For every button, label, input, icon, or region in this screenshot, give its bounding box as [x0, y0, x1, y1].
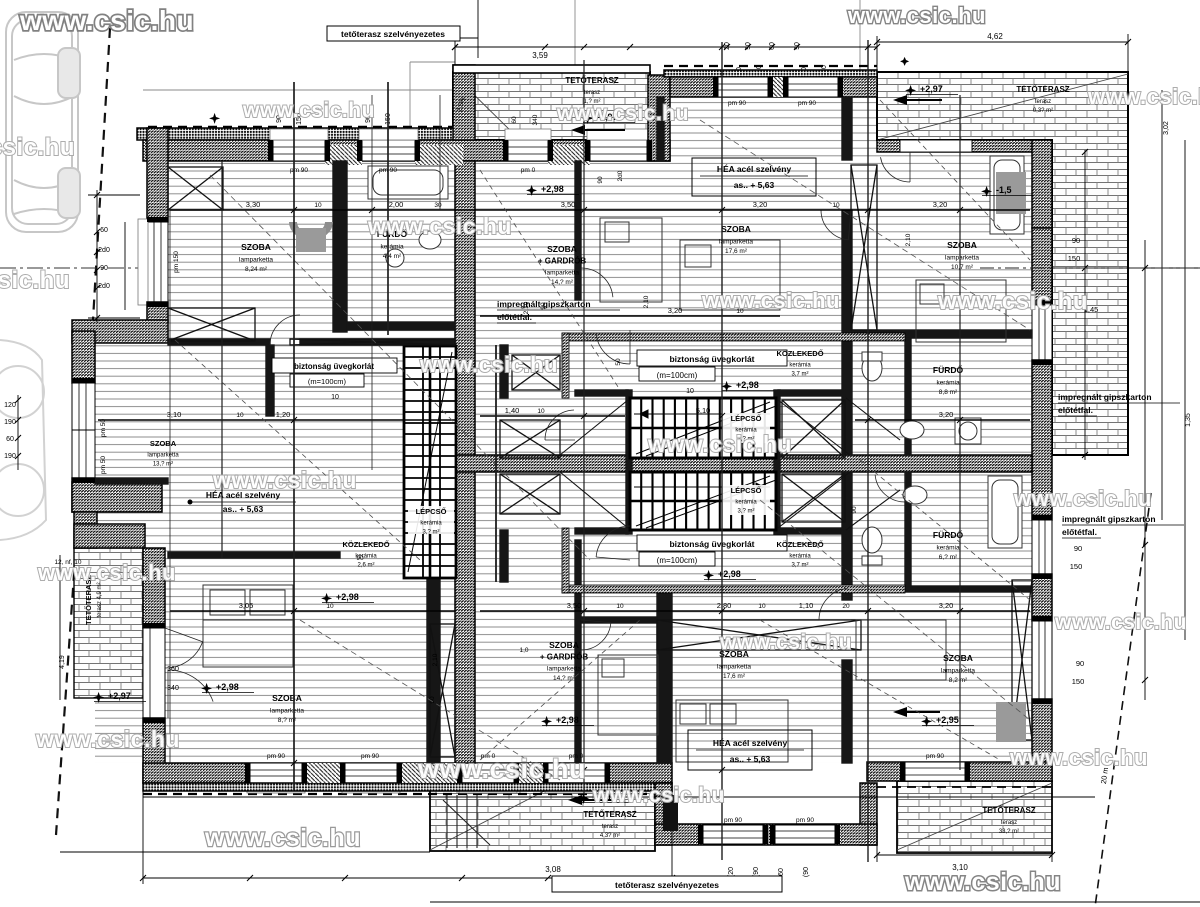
- svg-text:www.csic.hu: www.csic.hu: [37, 560, 176, 585]
- svg-text:kerámia: kerámia: [380, 244, 404, 251]
- wardrobe stair L up: [500, 420, 560, 458]
- arrow bottom right terrace: [893, 707, 940, 717]
- svg-text:4,62: 4,62: [987, 32, 1003, 41]
- svg-text:www.csic.hu: www.csic.hu: [367, 213, 512, 239]
- svg-text:33,? m²: 33,? m²: [999, 829, 1019, 835]
- stair guard diagonals: [560, 398, 900, 530]
- bed top-right room: [916, 280, 1006, 342]
- wall terrace left wall: [453, 65, 475, 140]
- svg-text:www.csic.hu: www.csic.hu: [1009, 745, 1148, 770]
- wall left lower b: [143, 718, 165, 783]
- elevation mark e7: [201, 682, 254, 694]
- svg-text:LÉPCSŐ: LÉPCSŐ: [731, 486, 762, 495]
- wall bay top: [72, 320, 168, 343]
- svg-text:előtétfal.: előtétfal.: [497, 312, 532, 322]
- svg-text:0,3? m²: 0,3? m²: [1033, 108, 1053, 114]
- svg-text:biztonság üvegkorlát: biztonság üvegkorlát: [669, 539, 754, 549]
- svg-text:90: 90: [1076, 659, 1084, 668]
- terrace bottom-right: [897, 781, 1052, 853]
- svg-text:www.csic.hu: www.csic.hu: [0, 267, 70, 294]
- interior wall right divider b: [842, 210, 852, 455]
- svg-text:2,10: 2,10: [905, 233, 912, 246]
- svg-text:as.. + 5,63: as.. + 5,63: [730, 754, 771, 764]
- wall insulation bottom: [143, 783, 672, 791]
- svg-text:kerámia: kerámia: [355, 554, 377, 560]
- svg-text:10,7 m²: 10,7 m²: [951, 264, 974, 271]
- stairhall hatch strip vertical lower: [562, 528, 569, 593]
- svg-text:+2,95: +2,95: [936, 715, 959, 725]
- room label terasz tr: [1016, 85, 1069, 114]
- window jambs: [72, 77, 1052, 844]
- svg-text:+ GARDRÓB: + GARDRÓB: [538, 257, 586, 266]
- svg-text:tetőterasz szelvényezetes: tetőterasz szelvényezetes: [341, 29, 445, 39]
- svg-text:pm 150: pm 150: [173, 251, 180, 273]
- wall left connector: [74, 512, 97, 548]
- wc and sink lower bath: [862, 486, 927, 565]
- svg-text:www.csic.hu: www.csic.hu: [0, 134, 75, 161]
- svg-text:lamparketta: lamparketta: [545, 270, 579, 277]
- wardrobe right lower tall: [1012, 580, 1032, 740]
- leader diagonals: [210, 120, 1030, 780]
- svg-text:TETŐTERASZ: TETŐTERASZ: [982, 806, 1035, 815]
- plaster note top: [497, 299, 620, 323]
- lepcso left backing: [408, 506, 454, 534]
- svg-text:+2,98: +2,98: [336, 592, 359, 602]
- window sill bottom: [459, 783, 517, 793]
- svg-text:1,35: 1,35: [1185, 413, 1192, 427]
- svg-text:3,20: 3,20: [668, 306, 683, 315]
- svg-text:(m=100cm): (m=100cm): [657, 371, 698, 380]
- svg-text:KÖZLEKEDŐ: KÖZLEKEDŐ: [342, 540, 389, 549]
- svg-text:3,? m²: 3,? m²: [737, 509, 754, 515]
- svg-text:impregnált gipszkarton: impregnált gipszkarton: [1058, 392, 1152, 402]
- svg-text:10: 10: [686, 388, 694, 395]
- svg-text:20: 20: [724, 42, 731, 50]
- room label szoba bm: [540, 640, 588, 682]
- svg-text:3,59: 3,59: [532, 51, 548, 60]
- svg-text:+2,98: +2,98: [556, 715, 579, 725]
- room label furdo tl: [377, 228, 408, 260]
- svg-text:30: 30: [434, 202, 442, 209]
- window pm labels: [267, 100, 944, 824]
- svg-text:HÉA acél szelvény: HÉA acél szelvény: [713, 738, 788, 748]
- extra dashed diagonals: [175, 100, 1030, 760]
- svg-text:14,? m²: 14,? m²: [551, 279, 574, 286]
- interior wall stairhall top a: [575, 390, 628, 396]
- svg-text:2d0: 2d0: [98, 283, 110, 290]
- wall central party vertical: [455, 161, 475, 763]
- svg-text:pm 50: pm 50: [100, 419, 107, 437]
- wall party wall horizontal: [455, 455, 1032, 472]
- svg-text:8,8 m²: 8,8 m²: [939, 389, 958, 396]
- interior wall stair side L: [626, 390, 632, 534]
- svg-text:90: 90: [1072, 236, 1080, 245]
- room label kozl dn: [776, 540, 823, 569]
- svg-text:terasz: terasz: [1001, 820, 1017, 826]
- svg-text:biztonság üvegkorlát: biztonság üvegkorlát: [294, 362, 374, 371]
- svg-text:pm 90: pm 90: [290, 167, 308, 174]
- svg-text:1,40: 1,40: [505, 406, 520, 415]
- window right wall 3: [1032, 621, 1052, 699]
- svg-text:340: 340: [532, 114, 539, 125]
- bed bottom-mid: [598, 655, 658, 735]
- door arc bath door: [875, 472, 905, 502]
- interior wall stairhall bot b: [778, 528, 845, 534]
- svg-text:+2,98: +2,98: [541, 184, 564, 194]
- wall right wall c: [1032, 574, 1052, 621]
- room label lepcso up: [731, 414, 762, 443]
- window top-right wall 718: [718, 77, 768, 97]
- floor bay room: [95, 343, 168, 482]
- wall protrusion bottom: [655, 824, 877, 845]
- svg-text:www.csic.hu: www.csic.hu: [35, 726, 180, 752]
- wall protrusion left: [655, 783, 672, 845]
- door arc NE door: [881, 152, 911, 182]
- sink top bath: [386, 231, 441, 267]
- svg-text:150: 150: [1070, 562, 1083, 571]
- window sill: [587, 129, 650, 140]
- svg-text:90: 90: [794, 42, 801, 50]
- svg-text:lamparketta: lamparketta: [945, 255, 979, 262]
- interior dim rows: [98, 210, 1030, 611]
- door arc divider door: [581, 268, 613, 300]
- window bottom wall 250: [250, 763, 302, 783]
- room label furdo r: [933, 364, 964, 396]
- rotated pm labels left wall: [100, 251, 180, 474]
- svg-text:3,10: 3,10: [167, 410, 182, 419]
- room label terasz tc: [565, 76, 618, 105]
- svg-text:www.csic.hu: www.csic.hu: [592, 784, 725, 807]
- svg-text:www.csic.hu: www.csic.hu: [847, 3, 986, 28]
- svg-text:8,2 m²: 8,2 m²: [949, 677, 968, 684]
- terrace slope diagonal: [430, 74, 1128, 850]
- wall bay left a: [72, 331, 95, 383]
- section note top: [327, 0, 478, 58]
- svg-text:terasz: terasz: [584, 90, 600, 96]
- window sill bottom: [247, 783, 305, 793]
- svg-text:www.csic.hu: www.csic.hu: [212, 467, 357, 493]
- wall top left unit: [143, 140, 670, 161]
- svg-text:60: 60: [511, 116, 518, 124]
- svg-text:TETŐTERASZ: TETŐTERASZ: [583, 810, 636, 819]
- wall left upper a: [147, 128, 168, 222]
- svg-text:2,10: 2,10: [643, 295, 650, 308]
- interior wall mid room divider top: [575, 161, 581, 300]
- svg-text:TETŐTERASZ: TETŐTERASZ: [1016, 85, 1069, 94]
- svg-text:pm 90: pm 90: [926, 753, 944, 760]
- svg-text:4,19: 4,19: [59, 655, 66, 669]
- svg-text:3,20: 3,20: [933, 200, 948, 209]
- staircase centre upper: [630, 398, 776, 458]
- interior wall right divider d: [842, 660, 852, 763]
- svg-text:impregnált gipszkarton: impregnált gipszkarton: [497, 299, 591, 309]
- svg-text:10: 10: [616, 603, 624, 610]
- svg-text:340: 340: [167, 685, 179, 692]
- tick clusters: [291, 44, 963, 773]
- svg-text:190: 190: [4, 419, 16, 426]
- wall insulation top right: [664, 70, 877, 77]
- svg-text:lamparketta: lamparketta: [147, 453, 179, 459]
- window top wall 590: [590, 140, 647, 161]
- wall insulation top-left: [137, 128, 473, 140]
- bed right-top: [680, 240, 780, 310]
- interior wall hall stub lower: [500, 530, 508, 582]
- terrace left-bottom: [74, 548, 143, 698]
- svg-text:www.csic.hu: www.csic.hu: [701, 288, 840, 313]
- wall right wall a: [1032, 228, 1052, 305]
- svg-text:2,00: 2,00: [389, 200, 404, 209]
- svg-text:90: 90: [745, 42, 752, 50]
- svg-text:tetőterasz szelvényezetes: tetőterasz szelvényezetes: [615, 880, 719, 890]
- svg-text:www.csic.hu: www.csic.hu: [937, 288, 1088, 315]
- bed bottom-left: [203, 585, 293, 667]
- elevation mark e11: [981, 185, 1034, 197]
- svg-text:pm 90: pm 90: [798, 100, 816, 107]
- door arc divider door low: [581, 620, 611, 650]
- svg-text:10: 10: [537, 408, 545, 415]
- grey chair top-right: [996, 172, 1026, 214]
- stairhall hatch band lower: [562, 585, 905, 593]
- window top wall 362: [362, 140, 415, 161]
- window top wall 273: [273, 140, 325, 161]
- terrace top edge: [453, 65, 650, 73]
- room label furdo br: [933, 529, 964, 561]
- wall bottom right wall: [867, 762, 1052, 781]
- wardrobe stair R dn: [782, 474, 845, 522]
- interior wall hall stub upper: [500, 345, 508, 398]
- room label terasz br: [982, 806, 1035, 835]
- svg-text:lamparketta: lamparketta: [239, 257, 273, 264]
- svg-text:4,4 m²: 4,4 m²: [383, 253, 402, 260]
- svg-text:10: 10: [236, 412, 244, 419]
- interior wall right divider a: [842, 97, 852, 160]
- svg-text:3,05: 3,05: [239, 601, 254, 610]
- svg-text:2d0: 2d0: [617, 170, 624, 181]
- svg-text:150: 150: [1072, 677, 1085, 686]
- svg-text:www.csic.hu: www.csic.hu: [904, 868, 1061, 896]
- svg-text:előtétfal.: előtétfal.: [1062, 527, 1097, 537]
- roofline dashed bottom-right: [877, 786, 1052, 788]
- interior wall right divider c: [842, 472, 852, 600]
- room label szoba far br: [941, 653, 975, 684]
- glass rail note left: [272, 358, 397, 401]
- svg-text:pm 90: pm 90: [267, 753, 285, 760]
- wardrobe top-left: [168, 167, 223, 210]
- svg-text:3,02: 3,02: [1163, 121, 1170, 135]
- roofline dashed bottom: [143, 793, 672, 795]
- svg-text:17,6 m²: 17,6 m²: [725, 248, 748, 255]
- bathtub right-lower: [988, 476, 1022, 548]
- terrace top-right: [877, 72, 1128, 455]
- svg-text:www.csic.hu: www.csic.hu: [19, 5, 194, 36]
- room label szoba mid: [538, 244, 586, 286]
- grey chair left: [289, 222, 333, 240]
- elevation mark e4: [721, 380, 774, 392]
- svg-text:+2,98: +2,98: [216, 682, 239, 692]
- svg-text:www.csic.hu: www.csic.hu: [417, 754, 586, 784]
- door arc right div door: [821, 210, 851, 240]
- svg-text:LÉPCSŐ: LÉPCSŐ: [731, 414, 762, 423]
- svg-text:terasz: terasz: [602, 824, 618, 830]
- svg-text:impregnált gipszkarton: impregnált gipszkarton: [1062, 514, 1156, 524]
- svg-text:6,? m²: 6,? m²: [939, 554, 958, 561]
- floor left lower strip: [95, 482, 165, 763]
- svg-text:90: 90: [1074, 544, 1082, 553]
- room label szoba bl: [270, 693, 304, 724]
- svg-text:3,? m²: 3,? m²: [422, 530, 439, 536]
- svg-text:60: 60: [778, 868, 785, 876]
- interior wall right horiz top: [851, 330, 1032, 338]
- svg-text:SZOBA: SZOBA: [272, 693, 302, 703]
- window sill left: [138, 219, 148, 305]
- svg-text:www.csic.hu: www.csic.hu: [1087, 84, 1200, 109]
- svg-text:www.csic.hu: www.csic.hu: [1013, 486, 1152, 511]
- svg-text:1,20: 1,20: [276, 410, 291, 419]
- svg-text:90: 90: [597, 176, 604, 184]
- dashdot centerline horizontal: [0, 267, 1200, 269]
- wardrobe left mid: [168, 308, 255, 341]
- wall left upper b: [147, 302, 168, 322]
- svg-text:1,0: 1,0: [519, 647, 528, 654]
- interior wall bay inner bottom: [95, 478, 168, 484]
- wall right wall b: [1032, 360, 1052, 520]
- window sill bottom: [342, 783, 400, 793]
- interior wall szoba-furdo: [333, 161, 347, 332]
- svg-text:LÉPCSŐ: LÉPCSŐ: [416, 507, 447, 516]
- floor left unit: [165, 161, 455, 763]
- interior wall bath partition lower: [905, 472, 911, 586]
- door arc mid door low: [596, 526, 630, 560]
- wall terrace right wall: [648, 75, 670, 161]
- wardrobe wide bottom: [657, 620, 861, 650]
- pier crosshatch overlays: [302, 77, 788, 783]
- interior wall szoba wall low: [168, 552, 340, 558]
- svg-text:SZOBA: SZOBA: [547, 244, 577, 254]
- svg-text:8,24 m²: 8,24 m²: [245, 266, 268, 273]
- svg-text:kerámia: kerámia: [789, 554, 811, 560]
- svg-text:TETŐTERASZ: TETŐTERASZ: [565, 76, 618, 85]
- HEA box 3: [688, 730, 812, 770]
- svg-text:(m=100cm): (m=100cm): [308, 377, 347, 386]
- door arc door leaf: [165, 628, 203, 668]
- elevation mark e2: [905, 84, 958, 96]
- svg-text:150: 150: [1068, 254, 1081, 263]
- elevation mark e10: [93, 691, 146, 703]
- interior wall bath partition upper: [905, 338, 911, 455]
- svg-text:5,10: 5,10: [696, 406, 711, 415]
- HEA box 1: [692, 158, 816, 196]
- elevation mark e1: [526, 184, 579, 196]
- svg-text:17,6 m²: 17,6 m²: [723, 673, 746, 680]
- window protrusion 703: [703, 825, 763, 844]
- svg-text:360: 360: [167, 666, 179, 673]
- door arc entry left: [168, 670, 213, 718]
- bed bottom-right: [676, 700, 788, 762]
- wc and sink mid-right bath: [862, 352, 981, 444]
- svg-text:60: 60: [6, 436, 14, 443]
- room label lepcso left: [416, 507, 447, 536]
- wardrobe stair R up: [782, 400, 845, 458]
- faint car 2: [0, 340, 46, 540]
- interior wall right horiz bottom: [851, 586, 1032, 592]
- glass rail note lower: [637, 535, 787, 566]
- window top-right wall 788: [788, 77, 838, 97]
- svg-text:-1,5: -1,5: [996, 185, 1012, 195]
- wall left band 2: [74, 524, 145, 548]
- interior wall hall top a: [168, 339, 270, 345]
- svg-text:KÖZLEKEDŐ: KÖZLEKEDŐ: [776, 349, 823, 358]
- bed right-lower room: [856, 620, 946, 680]
- svg-text:www.csic.hu: www.csic.hu: [647, 431, 792, 457]
- svg-text:90: 90: [100, 265, 108, 272]
- door arc mid door up: [596, 330, 630, 364]
- svg-text:pm 90: pm 90: [728, 100, 746, 107]
- room label terasz bm: [583, 810, 636, 839]
- svg-text:(90: (90: [803, 867, 810, 877]
- svg-text:pm 90: pm 90: [796, 817, 814, 824]
- section note bottom: [552, 876, 782, 892]
- svg-text:kerámia: kerámia: [789, 363, 811, 369]
- wall elevation star: [209, 113, 220, 124]
- svg-text:kerámia: kerámia: [420, 521, 442, 527]
- svg-text:kerámia: kerámia: [936, 545, 960, 552]
- plaster note right1: [1058, 392, 1180, 416]
- svg-text:www.csic.hu: www.csic.hu: [719, 631, 852, 654]
- arrow top terrace: [571, 125, 625, 135]
- room label szoba far rt: [945, 240, 979, 271]
- svg-text:FÜRDŐ: FÜRDŐ: [933, 364, 964, 375]
- arrow top right: [893, 95, 942, 105]
- wall bottom left unit: [143, 763, 672, 783]
- svg-text:20: 20: [842, 603, 850, 610]
- centerline over terrace right: [980, 267, 1200, 269]
- svg-text:10: 10: [326, 603, 334, 610]
- roofline dashed right-top: [664, 65, 877, 67]
- bathtub top-left: [368, 166, 448, 199]
- terrace top-centre: [453, 72, 650, 140]
- long chain lines: [170, 40, 960, 862]
- svg-text:3,20: 3,20: [753, 200, 768, 209]
- interior wall hall vert: [266, 345, 274, 416]
- elevation mark terr mid: [578, 792, 631, 804]
- interior wall hall top b: [300, 339, 455, 345]
- svg-text:SZOBA: SZOBA: [150, 439, 177, 448]
- svg-text:1,10: 1,10: [799, 601, 814, 610]
- wall top right unit: [670, 77, 877, 97]
- svg-text:as.. + 5,63: as.. + 5,63: [734, 180, 775, 190]
- svg-text:SZOBA: SZOBA: [241, 242, 271, 252]
- interior wall stairhall top b: [778, 390, 845, 396]
- interior wall corridor top mid: [581, 617, 657, 623]
- window right wall 2: [1032, 520, 1052, 574]
- door arc right div door low: [819, 588, 851, 620]
- stairhall hatch band upper: [562, 333, 905, 341]
- interior wall mid room divider bottom: [575, 540, 581, 763]
- svg-text:3,7 m²: 3,7 m²: [791, 563, 808, 569]
- svg-text:3,30: 3,30: [246, 200, 261, 209]
- door left wall: [143, 628, 165, 718]
- window bottom-right: [905, 762, 965, 781]
- svg-text:2d0: 2d0: [98, 247, 110, 254]
- wall bay left b: [72, 478, 95, 512]
- bathtub top-right: [990, 156, 1024, 234]
- svg-text:www.csic.hu: www.csic.hu: [419, 352, 558, 377]
- svg-text:www.csic.hu: www.csic.hu: [1054, 611, 1187, 634]
- svg-text:terasz 4,9 m²: terasz 4,9 m²: [97, 582, 103, 617]
- wall bay bottom: [72, 482, 162, 512]
- elevation mark e9: [921, 715, 974, 727]
- svg-text:www.csic.hu: www.csic.hu: [556, 102, 689, 125]
